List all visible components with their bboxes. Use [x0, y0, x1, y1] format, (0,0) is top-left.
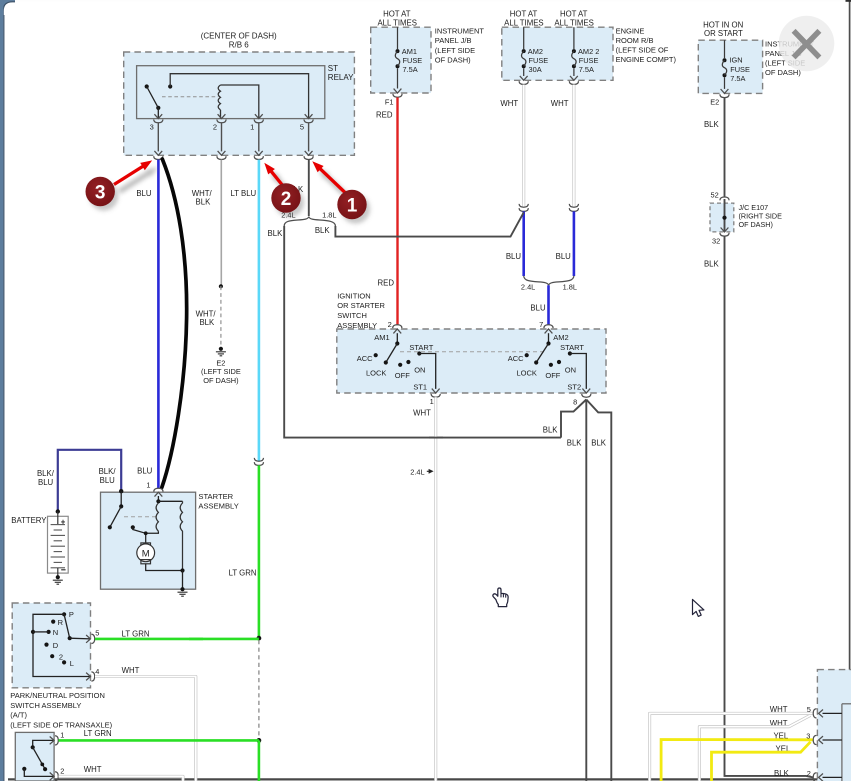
- svg-text:8: 8: [573, 398, 577, 407]
- svg-text:PARK/NEUTRAL POSITION: PARK/NEUTRAL POSITION: [10, 691, 105, 700]
- svg-text:1.8L: 1.8L: [322, 210, 336, 219]
- svg-text:BLU: BLU: [136, 189, 152, 198]
- svg-text:ST1: ST1: [413, 382, 427, 391]
- callout arrow 1: [318, 168, 351, 199]
- PNP rail wires: [33, 614, 91, 676]
- PNP arm P to output: [64, 614, 70, 638]
- relay pin 3: [154, 114, 162, 118]
- svg-text:LOCK: LOCK: [516, 369, 536, 378]
- relay mechanical link dashed: [162, 96, 218, 98]
- AM2 switch contacts: [546, 341, 550, 345]
- instrument panel J/B (IGN) box: [698, 40, 762, 93]
- svg-text:ST2: ST2: [567, 382, 581, 391]
- svg-text:ACC: ACC: [357, 354, 373, 363]
- pin ST2 / 8: [582, 389, 590, 393]
- svg-text:ALL TIMES: ALL TIMES: [554, 18, 593, 27]
- svg-text:30A: 30A: [529, 65, 542, 74]
- engine room R/B box: [502, 27, 613, 80]
- svg-text:5: 5: [95, 629, 99, 638]
- fuse AM2 2 7.5A: [573, 27, 575, 49]
- svg-text:ALL TIMES: ALL TIMES: [504, 18, 543, 27]
- svg-text:BLU: BLU: [38, 478, 54, 487]
- svg-text:BLK/: BLK/: [37, 469, 55, 478]
- svg-text:BLK: BLK: [774, 769, 790, 778]
- svg-text:OFF: OFF: [395, 371, 410, 380]
- starter coil A: [156, 499, 160, 503]
- svg-text:OF DASH): OF DASH): [739, 220, 773, 229]
- svg-text:1: 1: [347, 195, 358, 216]
- svg-text:WHT: WHT: [551, 99, 569, 108]
- mechanical link dashed ignition: [400, 351, 546, 353]
- pin ST1 / 1: [432, 389, 440, 393]
- fuse IGN 7.5A: [724, 40, 726, 58]
- starter assembly box: [101, 492, 196, 589]
- svg-text:N: N: [53, 628, 58, 637]
- svg-text:IGNITION: IGNITION: [337, 291, 370, 300]
- svg-text:AM2: AM2: [553, 333, 568, 342]
- relay common contact wire: [168, 84, 172, 88]
- starter coil B: [180, 501, 182, 570]
- svg-text:AM1: AM1: [374, 333, 389, 342]
- svg-text:1: 1: [250, 123, 254, 132]
- svg-text:RELAY: RELAY: [328, 73, 354, 82]
- svg-text:RED: RED: [378, 279, 395, 288]
- svg-text:3: 3: [95, 182, 106, 203]
- svg-text:(A/T): (A/T): [10, 711, 27, 720]
- wire LT GRN overlay at crossing: [189, 638, 203, 641]
- relay coil L1: [218, 85, 220, 110]
- pin E2: [721, 89, 729, 93]
- starter solenoid link dashed: [124, 516, 156, 518]
- svg-text:LT BLU: LT BLU: [230, 189, 256, 198]
- inline connector left: [519, 204, 528, 207]
- ground battery: [56, 575, 60, 579]
- svg-text:OF DASH): OF DASH): [765, 68, 801, 77]
- callout arrow 3: [120, 167, 159, 191]
- svg-text:OF DASH): OF DASH): [203, 376, 238, 385]
- svg-text:ON: ON: [414, 365, 425, 374]
- pin 4 PNP: [86, 673, 90, 681]
- svg-text:BLK: BLK: [199, 318, 215, 327]
- svg-text:1: 1: [60, 731, 64, 740]
- AM2 box pin right: [570, 76, 578, 80]
- svg-text:(CENTER OF DASH): (CENTER OF DASH): [201, 31, 277, 40]
- svg-text:1: 1: [430, 397, 434, 406]
- relay pin 5: [305, 114, 313, 118]
- svg-text:7.5A: 7.5A: [403, 65, 418, 74]
- svg-text:7: 7: [539, 320, 543, 329]
- svg-text:BLU: BLU: [137, 466, 153, 475]
- brace 2.4L/1.8L merge: [524, 276, 574, 286]
- svg-text:BLU: BLU: [530, 304, 546, 313]
- svg-text:INSTRUMENT: INSTRUMENT: [435, 27, 485, 36]
- svg-text:5: 5: [300, 123, 304, 132]
- svg-text:ALL TIMES: ALL TIMES: [377, 18, 416, 27]
- svg-text:3: 3: [806, 731, 810, 740]
- svg-text:ST: ST: [328, 64, 338, 73]
- svg-text:2.4L: 2.4L: [521, 282, 535, 291]
- svg-text:(LEFT SIDE OF TRANSAXLE): (LEFT SIDE OF TRANSAXLE): [10, 720, 112, 729]
- pin 5 PNP: [86, 635, 90, 643]
- svg-text:OFF: OFF: [545, 371, 560, 380]
- ground starter: [180, 587, 184, 591]
- relay block R/B 6 (center of dash): [124, 52, 355, 155]
- svg-text:SWITCH ASSEMBLY: SWITCH ASSEMBLY: [10, 701, 81, 710]
- svg-text:SWITCH: SWITCH: [337, 311, 367, 320]
- svg-text:1: 1: [146, 480, 150, 489]
- svg-text:HOT AT: HOT AT: [510, 10, 538, 19]
- svg-text:AM1: AM1: [402, 47, 417, 56]
- AM1 switch contacts: [395, 341, 399, 345]
- svg-text:ON: ON: [565, 365, 576, 374]
- highlighted trace wire black: [162, 159, 187, 488]
- svg-text:IGN: IGN: [730, 56, 743, 65]
- instrument panel J/B (AM1) box: [371, 27, 431, 93]
- svg-text:P: P: [69, 610, 74, 619]
- svg-text:LT GRN: LT GRN: [122, 629, 150, 638]
- svg-text:FUSE: FUSE: [730, 65, 750, 74]
- transaxle switch lower box: [15, 732, 54, 781]
- pin 3 connector: [819, 736, 823, 744]
- svg-text:BATTERY: BATTERY: [11, 516, 47, 525]
- ground E2 left side of dash: [219, 347, 223, 351]
- fuse AM1 7.5A: [397, 27, 399, 49]
- svg-text:LT GRN: LT GRN: [229, 568, 257, 577]
- AM2 box pin left: [520, 76, 528, 80]
- svg-text:E2: E2: [216, 358, 225, 367]
- svg-text:FUSE: FUSE: [403, 56, 423, 65]
- svg-text:START: START: [560, 343, 584, 352]
- AM1 START to ST1 wire: [419, 354, 435, 389]
- junction node LT GRN lower: [257, 738, 262, 743]
- callout circle 1: [341, 194, 370, 223]
- svg-text:OR STARTER: OR STARTER: [337, 301, 385, 310]
- svg-text:WHT: WHT: [84, 765, 102, 774]
- svg-text:4: 4: [95, 667, 99, 676]
- motor to ground wire: [146, 564, 183, 571]
- inline connector LT BLU to LT GRN: [254, 458, 263, 461]
- svg-text:WHT: WHT: [413, 409, 431, 418]
- AM2 START to ST2 wire: [570, 354, 586, 389]
- ST relay inner box U1: [137, 66, 325, 119]
- window left border: [0, 0, 15, 15]
- callout circle 2: [275, 188, 304, 217]
- svg-text:7.5A: 7.5A: [579, 65, 594, 74]
- relay pin 2: [218, 114, 226, 118]
- svg-text:HOT IN ON: HOT IN ON: [703, 20, 743, 29]
- svg-text:FUSE: FUSE: [529, 56, 549, 65]
- svg-text:2: 2: [281, 189, 292, 210]
- svg-text:START: START: [409, 343, 433, 352]
- hand cursor: [493, 588, 508, 607]
- arrow cursor: [693, 599, 704, 616]
- svg-text:ENGINE: ENGINE: [616, 26, 645, 35]
- svg-text:FUSE: FUSE: [579, 56, 599, 65]
- coil A to motor wire: [146, 531, 159, 543]
- svg-text:ENGINE COMPT): ENGINE COMPT): [616, 55, 677, 64]
- svg-text:F1: F1: [385, 98, 394, 107]
- svg-text:ASSEMBLY: ASSEMBLY: [198, 502, 238, 511]
- svg-text:2: 2: [388, 320, 392, 329]
- svg-text:BLU: BLU: [100, 476, 116, 485]
- svg-text:BLK: BLK: [591, 439, 607, 448]
- callout circle 3: [89, 181, 118, 210]
- node battery wire at starter box: [119, 489, 123, 493]
- svg-text:ROOM R/B: ROOM R/B: [616, 36, 654, 45]
- park/neutral position switch box: [12, 603, 90, 688]
- svg-text:BLK: BLK: [196, 198, 212, 207]
- bottom edge line: [8, 778, 851, 780]
- svg-text:2.4L: 2.4L: [410, 467, 424, 476]
- junction node LT GRN upper: [257, 636, 262, 641]
- bottom right connector box: [817, 670, 851, 781]
- ignition switch box S1: [337, 329, 606, 393]
- svg-text:ACC: ACC: [508, 354, 524, 363]
- lower switch contacts: [33, 740, 54, 747]
- svg-text:BLU: BLU: [506, 252, 522, 261]
- svg-text:(LEFT SIDE: (LEFT SIDE: [435, 46, 475, 55]
- svg-text:BLK: BLK: [543, 426, 559, 435]
- svg-text:OF DASH): OF DASH): [435, 55, 471, 64]
- close button: [779, 16, 835, 72]
- svg-text:AM2 2: AM2 2: [578, 47, 599, 56]
- svg-text:2: 2: [807, 769, 811, 778]
- svg-text:2: 2: [60, 767, 64, 776]
- svg-text:LOCK: LOCK: [366, 369, 386, 378]
- pin 2 lower: [50, 773, 54, 781]
- svg-text:WHT: WHT: [500, 99, 518, 108]
- svg-text:WHT: WHT: [122, 666, 140, 675]
- svg-text:STARTER: STARTER: [198, 492, 233, 501]
- wire BLK overlay at WHT crossing: [429, 437, 443, 439]
- svg-text:BLK: BLK: [567, 439, 583, 448]
- starter motor M: [141, 543, 151, 547]
- svg-text:M: M: [142, 549, 150, 560]
- svg-text:BLK: BLK: [315, 226, 331, 235]
- svg-text:HOT AT: HOT AT: [560, 10, 588, 19]
- svg-text:HOT AT: HOT AT: [383, 10, 411, 19]
- svg-text:BLK: BLK: [704, 259, 720, 268]
- callout arrow 2: [270, 170, 289, 194]
- svg-text:R/B 6: R/B 6: [229, 40, 250, 49]
- PNP switch contacts: [62, 612, 66, 616]
- svg-text:E2: E2: [710, 97, 719, 106]
- relay switch contact: [145, 84, 149, 88]
- svg-text:AM2: AM2: [528, 47, 543, 56]
- pin F1: [394, 89, 402, 93]
- svg-text:D: D: [53, 641, 59, 650]
- svg-text:L: L: [70, 659, 74, 668]
- svg-text:BLK/: BLK/: [99, 467, 117, 476]
- svg-text:PANEL J/B: PANEL J/B: [435, 36, 472, 45]
- svg-text:1.8L: 1.8L: [563, 282, 577, 291]
- pin 1 lower: [50, 737, 54, 745]
- svg-text:(LEFT SIDE OF: (LEFT SIDE OF: [616, 45, 669, 54]
- relay pin 1: [255, 114, 263, 118]
- pin 5 connector: [819, 710, 823, 718]
- svg-text:WHT/: WHT/: [192, 189, 213, 198]
- svg-text:5: 5: [807, 705, 811, 714]
- inline connector right: [569, 204, 578, 207]
- svg-text:LT GRN: LT GRN: [84, 729, 112, 738]
- svg-text:OR START: OR START: [704, 29, 743, 38]
- svg-text:(LEFT SIDE: (LEFT SIDE: [201, 367, 241, 376]
- svg-text:BLK: BLK: [268, 229, 284, 238]
- brace split 2.4L/1.8L under pin5: [284, 217, 335, 226]
- svg-text:2: 2: [213, 123, 217, 132]
- starter solenoid switch: [120, 491, 122, 506]
- svg-text:WHT/: WHT/: [196, 309, 217, 318]
- dashed segment between junctions: [258, 640, 260, 739]
- fuse AM2 30A: [523, 27, 525, 49]
- svg-text:BLU: BLU: [556, 252, 572, 261]
- svg-text:7.5A: 7.5A: [730, 74, 745, 83]
- svg-text:2: 2: [59, 653, 63, 662]
- svg-text:BLK: BLK: [704, 120, 720, 129]
- svg-text:R: R: [58, 618, 64, 627]
- svg-text:32: 32: [712, 236, 720, 245]
- window right border: [849, 0, 851, 781]
- svg-text:52: 52: [710, 191, 718, 200]
- svg-text:3: 3: [150, 123, 154, 132]
- svg-text:RED: RED: [376, 111, 393, 120]
